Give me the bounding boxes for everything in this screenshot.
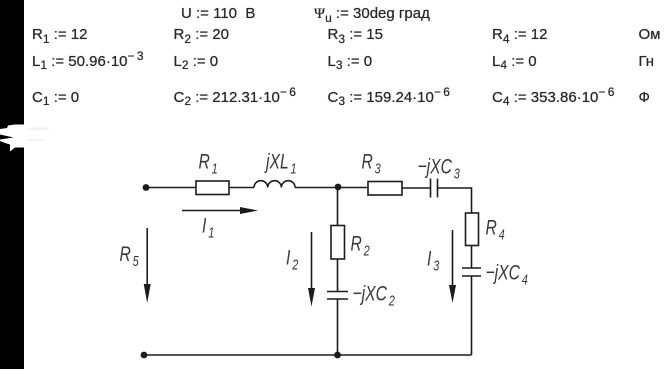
wire right corner down: [471, 187, 473, 213]
inductor L1: [254, 181, 295, 188]
svg-text:I1: I1: [202, 213, 214, 241]
resistor R2: [331, 226, 345, 260]
arrow I3: [449, 230, 456, 303]
capacitor C3: [430, 179, 432, 198]
svg-text:R2: R2: [351, 231, 371, 259]
arrow I1: [182, 207, 258, 214]
node top-left: [143, 184, 150, 191]
svg-text:I3: I3: [427, 246, 440, 274]
wire C3 to right corner: [438, 187, 472, 189]
wire R1 to L1: [229, 187, 254, 189]
arrow R5: [144, 228, 151, 303]
wire L1 to node: [295, 187, 368, 189]
resistor R1: [196, 181, 229, 195]
wire C2 to bottom: [337, 299, 339, 355]
resistor R3: [368, 182, 402, 196]
wire C4 to bottom: [471, 276, 473, 355]
wire R3 to C3: [402, 187, 431, 189]
svg-text:R3: R3: [362, 149, 382, 177]
left black scan band: [0, 0, 24, 369]
svg-text:−jXC2: −jXC2: [353, 281, 396, 309]
middle branch wire node to R2: [337, 188, 339, 226]
wire R4 to C4: [471, 246, 473, 269]
svg-text:R4: R4: [486, 215, 505, 243]
capacitor C4: [462, 267, 481, 269]
svg-text:R1: R1: [199, 149, 218, 177]
resistor R4: [466, 213, 479, 246]
wire R2 to C2: [337, 259, 339, 292]
scan band tear (white): [0, 110, 90, 170]
svg-text:−jXC4: −jXC4: [486, 260, 528, 288]
capacitor C2: [327, 291, 348, 293]
svg-text:I2: I2: [286, 245, 299, 273]
svg-text:R5: R5: [120, 242, 140, 270]
arrow I2: [308, 232, 315, 307]
node middle top: [335, 184, 342, 191]
svg-text:−jXC3: −jXC3: [418, 154, 461, 182]
bottom wire: [144, 354, 472, 356]
node bottom-middle: [334, 352, 341, 359]
wire top left: [146, 187, 196, 189]
node bottom-left: [141, 352, 148, 359]
svg-text:jXL1: jXL1: [263, 149, 296, 177]
